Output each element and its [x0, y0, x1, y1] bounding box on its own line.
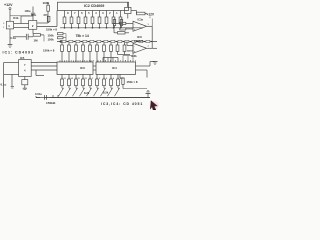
- svg-text:150k × 8: 150k × 8: [46, 28, 57, 32]
- svg-text:IC3a: IC3a: [138, 18, 144, 22]
- svg-text:IC5: IC5: [20, 56, 25, 60]
- svg-text:100k: 100k: [43, 1, 50, 5]
- svg-text:0.1u: 0.1u: [10, 36, 16, 40]
- svg-text:0.1u: 0.1u: [1, 83, 7, 87]
- svg-text:1: 1: [3, 27, 4, 29]
- svg-text:IC2 CD4069: IC2 CD4069: [84, 4, 104, 8]
- svg-text:150k × 8: 150k × 8: [43, 48, 55, 52]
- svg-text:2: 2: [106, 78, 107, 80]
- svg-text:12: 12: [85, 78, 87, 80]
- svg-text:IC3b: IC3b: [131, 54, 137, 58]
- svg-text:2: 2: [3, 23, 4, 25]
- svg-text:0.01u: 0.01u: [35, 92, 42, 96]
- svg-text:IC3: IC3: [80, 66, 85, 70]
- svg-text:1M: 1M: [34, 39, 39, 43]
- svg-text:13: 13: [64, 78, 66, 80]
- svg-text:150k: 150k: [48, 37, 55, 41]
- svg-text:LM324: LM324: [134, 39, 144, 43]
- svg-text:IC1c: IC1c: [31, 14, 37, 17]
- svg-text:IC1: CD4093: IC1: CD4093: [3, 51, 34, 55]
- svg-text:8.2k: 8.2k: [84, 91, 90, 95]
- svg-text:5: 5: [99, 78, 100, 80]
- svg-text:100u: 100u: [25, 9, 31, 13]
- svg-text:IC3,IC4: CD 4051: IC3,IC4: CD 4051: [101, 102, 143, 106]
- svg-text:6: 6: [120, 78, 121, 80]
- svg-text:IC1b: IC1b: [13, 17, 19, 20]
- svg-text:150kΩ: 150kΩ: [46, 101, 56, 105]
- svg-text:27n: 27n: [44, 13, 49, 17]
- svg-text:150k × 8: 150k × 8: [127, 80, 138, 84]
- svg-text:1: 1: [92, 78, 93, 80]
- svg-text:IC4: IC4: [112, 66, 117, 70]
- svg-text:75k × 14: 75k × 14: [76, 34, 89, 38]
- svg-text:+12V: +12V: [4, 3, 13, 7]
- svg-text:15: 15: [78, 78, 80, 80]
- svg-text:+12V: +12V: [147, 12, 155, 16]
- svg-text:8.2k: 8.2k: [103, 91, 109, 95]
